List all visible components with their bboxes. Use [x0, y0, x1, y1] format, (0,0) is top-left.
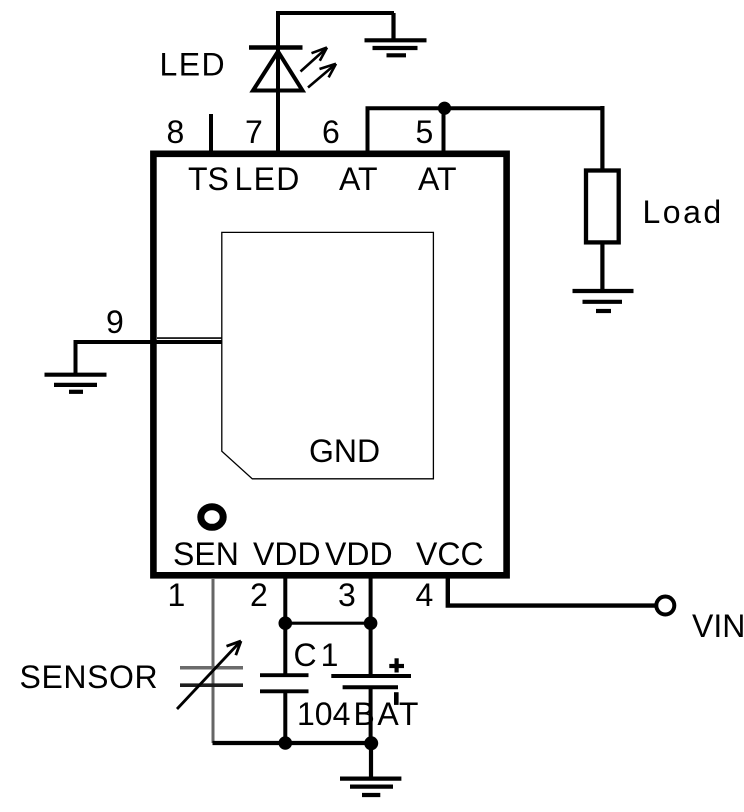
wire down to Load [600, 106, 604, 172]
battery BAT plus plate [331, 674, 411, 678]
svg-text:VDD: VDD [253, 536, 321, 572]
pin 9 thin lead [157, 337, 222, 339]
capacitor C1 plate bottom [260, 689, 309, 693]
LED D1 triangle [253, 52, 303, 91]
wire pin 9 to ground [76, 342, 223, 374]
ground GND2 (load) [573, 291, 634, 311]
wire pin4 to VIN [448, 578, 656, 606]
junction dot VDD left [279, 616, 293, 630]
IC U1 inner GND pad outline [222, 232, 434, 478]
LED D1 light arrow 1 [301, 48, 328, 72]
capacitor C1 plate top [260, 673, 309, 677]
junction dot bottom left [279, 736, 293, 750]
svg-text:8: 8 [167, 114, 185, 150]
wire pin3 down to battery [369, 578, 373, 675]
svg-text:6: 6 [322, 114, 340, 150]
svg-text:VIN: VIN [692, 608, 744, 644]
svg-text:2: 2 [250, 577, 268, 613]
sensor arrow [177, 641, 241, 709]
svg-text:1: 1 [168, 577, 186, 613]
svg-text:VDD: VDD [325, 536, 393, 572]
svg-text:9: 9 [106, 304, 124, 340]
pin 8 TS stub wire [209, 114, 213, 153]
wire bottom to ground [369, 743, 373, 779]
svg-text:AT: AT [339, 161, 378, 197]
wire pin6 up [366, 108, 370, 153]
resistor Load [586, 171, 619, 243]
wire Load to ground [600, 242, 604, 291]
junction dot AT net [438, 102, 451, 115]
battery BAT minus plate [343, 685, 398, 689]
wire battery to bottom net [369, 689, 373, 745]
sensor plate top [180, 666, 243, 670]
svg-text:GND: GND [309, 433, 380, 469]
wire top LED to ground [276, 11, 394, 15]
wire VDD net horizontal [285, 622, 370, 625]
IC U1 body [153, 154, 506, 576]
wire pin1 to sensor (gray) [212, 578, 215, 743]
sensor plate bottom [180, 683, 243, 687]
svg-text:VCC: VCC [416, 536, 484, 572]
svg-text:104: 104 [297, 696, 350, 732]
wire pin7 up through LED [276, 13, 280, 153]
battery plus sign [389, 658, 404, 672]
svg-text:4: 4 [416, 577, 434, 613]
pin 1 indicator ring [201, 507, 223, 528]
svg-text:TS: TS [188, 161, 229, 197]
junction dot bottom right [364, 736, 378, 750]
ground GND3 (pin 9) [45, 375, 107, 392]
svg-text:SENSOR: SENSOR [20, 659, 159, 695]
wire pin2 down to C1 [283, 578, 287, 674]
svg-text:C1: C1 [294, 637, 343, 673]
wire bottom net [213, 741, 371, 745]
svg-text:LED: LED [160, 47, 226, 83]
wire AT net horizontal [366, 106, 605, 110]
LED D1 light arrow 2 [308, 64, 336, 88]
svg-text:AT: AT [418, 161, 457, 197]
ground GND1 (top right) [365, 13, 427, 55]
svg-text:LED: LED [235, 161, 301, 197]
terminal VIN circle [656, 597, 674, 615]
ground GND4 (battery) [340, 779, 401, 795]
svg-text:7: 7 [245, 114, 263, 150]
svg-text:3: 3 [338, 577, 356, 613]
svg-text:Load: Load [643, 194, 724, 230]
svg-text:BAT: BAT [354, 696, 421, 732]
svg-text:SEN: SEN [173, 536, 239, 572]
wire C1 to bottom net [283, 693, 287, 745]
svg-text:5: 5 [416, 114, 434, 150]
junction dot VDD right [364, 616, 378, 630]
battery minus mark [394, 692, 399, 705]
wire pin5 stub [442, 108, 446, 153]
LED D1 cathode bar [249, 45, 303, 50]
